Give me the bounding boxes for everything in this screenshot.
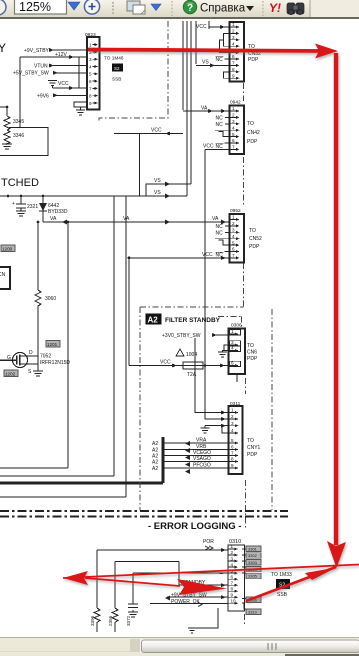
- thick bus horizontal y483: [0, 482, 163, 485]
- svg-text:5: 5: [231, 438, 234, 443]
- svg-text:TO: TO: [247, 121, 254, 127]
- grey boxes 3301-3305: [246, 546, 261, 579]
- svg-text:1: 1: [232, 22, 235, 27]
- svg-text:+5V_STBY_SW: +5V_STBY_SW: [13, 71, 49, 77]
- svg-text:3310: 3310: [248, 609, 258, 614]
- svg-text:VRA: VRA: [196, 438, 207, 444]
- svg-text:7: 7: [231, 451, 234, 456]
- wire +9V_STBY_SW: [165, 593, 228, 601]
- wire VCC through fuse to 0306 pin6: [128, 257, 229, 368]
- right vertical line: [334, 53, 338, 545]
- warning triangle 1004: [176, 349, 197, 358]
- vertical wire x70: [67, 222, 69, 468]
- label TO 1M46 SSB: [104, 56, 124, 82]
- ground to 0311 pin3: [201, 424, 229, 433]
- svg-text:4: 4: [232, 125, 235, 130]
- svg-text:9: 9: [231, 592, 234, 597]
- svg-text:S: S: [28, 369, 32, 375]
- svg-text:3302: 3302: [248, 553, 258, 558]
- svg-text:Справка: Справка: [200, 3, 246, 15]
- svg-text:7: 7: [232, 253, 235, 258]
- svg-text:3: 3: [231, 421, 234, 426]
- svg-text:NC: NC: [216, 231, 224, 237]
- wire to 0942 pin4: [215, 129, 230, 131]
- bus wire x195 to 0311 pin1: [195, 338, 229, 415]
- dash-dot section box FILTER STANDBY: [140, 307, 272, 510]
- svg-text:5: 5: [89, 72, 92, 77]
- binoculars search icon: [287, 3, 304, 15]
- svg-text:3: 3: [232, 119, 235, 124]
- svg-text:4: 4: [231, 428, 234, 433]
- label NC pin6 CN-top: [216, 57, 230, 63]
- svg-text:1004: 1004: [186, 352, 197, 358]
- bus vertical x183: [182, 21, 184, 110]
- ground mark 0310 pin5: [218, 571, 224, 574]
- svg-text:2321: 2321: [27, 204, 38, 210]
- wire VCEGO: [152, 450, 229, 460]
- svg-text:CN: CN: [0, 272, 6, 278]
- svg-text:POWER_OK: POWER_OK: [171, 599, 201, 605]
- wire +12V: [20, 52, 87, 128]
- label NC 0942 pin6: [216, 143, 230, 150]
- wire VCC to 0942 pin7: [203, 144, 230, 366]
- svg-text:3: 3: [232, 35, 235, 40]
- vertical x97 with resistor 3396: [90, 550, 100, 632]
- svg-text:7: 7: [232, 61, 235, 66]
- resistor 3060: [35, 221, 56, 356]
- label NC 0952 pin2 pin3: [216, 224, 230, 237]
- connector CN-top (pins 1-9): [230, 22, 262, 82]
- step symbol 0952 pin5: [219, 240, 230, 245]
- svg-text:VS: VS: [154, 190, 161, 196]
- svg-text:3372: 3372: [126, 615, 131, 626]
- wire VCC going left: [114, 128, 183, 477]
- diagonal shaft to connector: [246, 567, 336, 601]
- zoom-in round button: [84, 0, 99, 14]
- svg-text:+12V: +12V: [55, 52, 67, 58]
- svg-text:8: 8: [231, 457, 234, 462]
- chassis ground at VCC wire: [48, 81, 87, 91]
- dash-dot border SSB top-left: [99, 21, 168, 122]
- wire VTUN: [34, 64, 87, 70]
- zoom combo box 125%: [15, 0, 67, 14]
- connector 0311: [229, 401, 261, 474]
- svg-text:NC: NC: [216, 116, 224, 122]
- svg-text:125%: 125%: [19, 0, 51, 14]
- wire +5V_STBY_SW: [13, 71, 87, 77]
- label NC 0942 pin2 pin3: [216, 116, 230, 129]
- svg-text:9: 9: [231, 463, 234, 468]
- label NC 0952 pin6: [216, 252, 230, 259]
- svg-text:5: 5: [232, 132, 235, 137]
- resistor 3346: [4, 130, 24, 144]
- svg-text:VCC: VCC: [196, 24, 207, 30]
- svg-text:VS: VS: [202, 60, 209, 66]
- svg-text:VTUN: VTUN: [34, 64, 48, 70]
- connector 0923: [85, 32, 100, 110]
- svg-text:CN6: CN6: [247, 350, 257, 356]
- wire VRA: [152, 438, 229, 448]
- svg-text:CN42: CN42: [247, 130, 260, 136]
- pages icon button: [127, 1, 145, 14]
- svg-text:- ERROR LOGGING -: - ERROR LOGGING -: [148, 521, 241, 532]
- svg-text:G: G: [7, 355, 11, 361]
- separator grip: [171, 1, 173, 16]
- wire STANDBY: [179, 580, 228, 587]
- svg-text:4: 4: [89, 64, 92, 69]
- svg-text:4: 4: [232, 234, 235, 239]
- window edge dark strip: [285, 654, 359, 656]
- grey box 1200: [1, 245, 15, 252]
- wire junction y107 left edge: [0, 106, 8, 109]
- svg-text:SSB: SSB: [277, 592, 288, 598]
- wire +9V6: [37, 93, 87, 99]
- wire +9V_STBY: [24, 48, 87, 54]
- thick bus vertical x163: [162, 437, 165, 483]
- svg-text:NC: NC: [216, 57, 224, 63]
- svg-text:+9V_STBY: +9V_STBY: [24, 48, 50, 54]
- resistor 3345: [4, 107, 24, 130]
- svg-text:2: 2: [231, 414, 234, 419]
- bracket pins 8-9 CN-top: [224, 72, 230, 78]
- svg-text:3060: 3060: [45, 296, 56, 302]
- wire PFCGO: [152, 463, 229, 475]
- svg-text:PDP: PDP: [247, 356, 258, 362]
- svg-text:+: +: [12, 201, 15, 207]
- wire y572 to pin5: [133, 572, 228, 574]
- svg-text:CN52: CN52: [249, 236, 262, 242]
- svg-text:TO: TO: [247, 343, 254, 349]
- svg-text:7052: 7052: [40, 354, 51, 360]
- big down arrowhead: [327, 541, 346, 568]
- transistor 7052 IRFR12N15D: [0, 350, 70, 375]
- svg-text:PFCGO: PFCGO: [193, 463, 211, 469]
- step to 0311 pin4: [222, 426, 229, 433]
- svg-text:IRFR12N15D: IRFR12N15D: [40, 360, 70, 366]
- svg-text:A2: A2: [152, 460, 158, 466]
- svg-text:?: ?: [187, 3, 193, 14]
- svg-text:PDP: PDP: [247, 452, 258, 458]
- ground below transistor: [33, 371, 43, 376]
- svg-text:VS: VS: [154, 178, 161, 184]
- connector 0952: [230, 208, 263, 263]
- toolbar: [0, 0, 359, 17]
- connector 0942: [230, 100, 261, 155]
- bus vertical x209: [208, 21, 210, 29]
- svg-text:VA: VA: [212, 216, 219, 222]
- dash-dot board border vertical x243: [218, 83, 246, 625]
- wire to 0952 pin4: [215, 238, 230, 240]
- svg-text:6: 6: [89, 79, 92, 84]
- svg-text:PDP: PDP: [249, 244, 260, 250]
- status bar background: [0, 637, 359, 656]
- svg-text:2: 2: [232, 29, 235, 34]
- svg-text:0306: 0306: [231, 323, 242, 329]
- svg-text:6: 6: [231, 574, 234, 579]
- svg-text:FILTER STANDBY: FILTER STANDBY: [165, 317, 221, 324]
- svg-text:3346: 3346: [13, 133, 24, 139]
- svg-text:6: 6: [232, 138, 235, 143]
- svg-text:9: 9: [232, 73, 235, 78]
- scrollbar left button area: [130, 639, 140, 652]
- capacitor 2321: [12, 196, 38, 216]
- grey box 1201: [46, 341, 60, 348]
- svg-text:VA: VA: [50, 216, 57, 222]
- fuse 1004 T2A: [183, 362, 203, 378]
- svg-text:7: 7: [89, 86, 92, 91]
- svg-text:POR: POR: [203, 539, 214, 545]
- svg-text:TO 1M46: TO 1M46: [104, 56, 124, 61]
- svg-text:4: 4: [231, 562, 234, 567]
- diode 6442 BYD33D: [39, 196, 68, 222]
- ground to 0306 pin4: [218, 345, 229, 357]
- svg-text:1202: 1202: [5, 371, 16, 376]
- double arrow lower left: [63, 565, 359, 579]
- horizontal wire y468: [0, 467, 68, 469]
- svg-text:S2: S2: [114, 66, 120, 71]
- svg-text:3: 3: [232, 228, 235, 233]
- svg-text:VA: VA: [201, 106, 208, 112]
- svg-text:VSAGO: VSAGO: [193, 456, 211, 462]
- svg-text:CNY1: CNY1: [247, 445, 261, 451]
- svg-text:2356: 2356: [108, 615, 113, 626]
- svg-text:7: 7: [232, 145, 235, 150]
- svg-text:A2: A2: [152, 466, 158, 472]
- svg-text:VCC: VCC: [203, 144, 214, 150]
- svg-text:1: 1: [89, 43, 92, 48]
- svg-text:A2: A2: [152, 441, 158, 447]
- svg-text:1: 1: [231, 408, 234, 413]
- svg-text:8: 8: [231, 586, 234, 591]
- top horizontal arrow: [88, 50, 322, 52]
- svg-text:3396: 3396: [90, 615, 95, 626]
- svg-text:SSB: SSB: [112, 77, 121, 82]
- connector box CN left edge: [0, 267, 10, 289]
- svg-text:TO 1M33: TO 1M33: [271, 572, 292, 578]
- svg-text:TO: TO: [249, 228, 256, 234]
- svg-text:4: 4: [232, 41, 235, 46]
- svg-text:TCHED: TCHED: [1, 177, 39, 189]
- svg-text:VCC: VCC: [151, 128, 162, 134]
- connector 0310: [228, 539, 246, 611]
- svg-text:1: 1: [232, 106, 235, 111]
- scrollbar track: [140, 639, 359, 653]
- svg-text:1200: 1200: [2, 246, 13, 251]
- svg-text:PDP: PDP: [248, 57, 259, 63]
- wire POWER_OK: [150, 599, 228, 607]
- svg-text:1201: 1201: [47, 342, 58, 347]
- svg-text:3303: 3303: [248, 560, 258, 565]
- svg-text:D: D: [29, 350, 33, 356]
- combo dropdown blue arrow: [68, 2, 80, 10]
- wire to 0310 pin4: [115, 562, 179, 586]
- wire VS to CN-top pin7: [196, 60, 230, 68]
- svg-text:VCC: VCC: [58, 81, 69, 87]
- svg-text:1: 1: [231, 544, 234, 549]
- svg-text:NC: NC: [216, 224, 224, 230]
- svg-text:3305: 3305: [248, 574, 258, 579]
- wire VRB: [152, 444, 229, 454]
- svg-text:3: 3: [89, 57, 92, 62]
- L wire below 0310: [188, 608, 218, 633]
- wire +3V0_STBY_SW: [162, 333, 229, 339]
- svg-text:+9V6: +9V6: [37, 94, 49, 100]
- svg-text:1: 1: [232, 215, 235, 220]
- svg-text:TO: TO: [247, 438, 254, 444]
- connector 0306: [229, 323, 258, 383]
- grey box 3306: [246, 597, 261, 602]
- vertical wire x126: [125, 196, 127, 497]
- double dash-dot section divider: [0, 511, 288, 517]
- svg-text:Y: Y: [0, 41, 6, 55]
- box around 3346: [0, 128, 48, 156]
- svg-text:8: 8: [89, 94, 92, 99]
- svg-text:2: 2: [232, 113, 235, 118]
- wire VSAGO: [152, 456, 229, 467]
- vertical x115 with resistor 2356: [108, 562, 118, 633]
- wire VA to 0942 pin1: [183, 106, 230, 114]
- label TO 1M33 SSB: [271, 572, 292, 598]
- svg-text:VCC: VCC: [160, 360, 171, 366]
- wire VCC to CN-top pin1: [196, 24, 230, 30]
- horizontal wire y497: [0, 496, 126, 498]
- svg-text:0952: 0952: [230, 208, 241, 214]
- scrollbar thumb: [142, 640, 359, 653]
- wire POR: [97, 539, 228, 552]
- ground below 3346: [2, 144, 12, 149]
- svg-text:VCC: VCC: [202, 252, 213, 258]
- svg-text:3301: 3301: [248, 546, 258, 551]
- svg-text:5: 5: [232, 240, 235, 245]
- grey box 3310: [246, 609, 261, 614]
- svg-text:8: 8: [232, 67, 235, 72]
- bus wire x205 to 0311 pin2: [204, 364, 229, 421]
- ground pins 9-10 of 0923: [74, 102, 87, 115]
- help green circle: [183, 0, 197, 14]
- separator grip: [262, 1, 264, 16]
- long wire SWITCHED y196: [0, 190, 187, 199]
- bus vertical x191: [190, 21, 192, 184]
- svg-text:6: 6: [231, 445, 234, 450]
- svg-text:2: 2: [232, 221, 235, 226]
- svg-text:BYD33D: BYD33D: [48, 209, 68, 215]
- label A2 FILTER STANDBY: [146, 314, 221, 325]
- svg-text:0942: 0942: [230, 100, 241, 106]
- horizontal wire y476: [0, 475, 114, 477]
- partial round button left edge: [0, 0, 6, 15]
- wire VA from diode to 0952 pin1: [43, 216, 229, 225]
- separator grip: [112, 2, 114, 15]
- svg-text:6: 6: [232, 247, 235, 252]
- svg-text:7: 7: [231, 580, 234, 585]
- svg-text:A2: A2: [148, 316, 159, 325]
- svg-text:Y!: Y!: [269, 1, 281, 15]
- svg-text:3345: 3345: [13, 119, 24, 125]
- svg-text:PDP: PDP: [247, 139, 258, 145]
- bus vertical x196: [195, 21, 197, 64]
- layout dropdown blue arrow: [151, 4, 161, 11]
- svg-text:NC: NC: [216, 122, 224, 128]
- grey box 1202: [4, 370, 18, 377]
- toolbar right end edge: [311, 0, 359, 17]
- svg-text:6: 6: [232, 54, 235, 59]
- bracket pins 2-4 CN-top: [220, 33, 230, 52]
- bus vertical x187: [186, 21, 188, 196]
- step symbol 0942 pin5: [219, 132, 230, 137]
- vertical x133 with capacitor 3372: [126, 573, 138, 626]
- status bar top line: [0, 637, 359, 639]
- svg-text:2: 2: [231, 550, 234, 555]
- svg-text:3: 3: [231, 556, 234, 561]
- wire VS upper branch: [146, 178, 191, 196]
- wire VCC to 0952 pin7: [129, 252, 230, 260]
- svg-text:9: 9: [89, 101, 92, 106]
